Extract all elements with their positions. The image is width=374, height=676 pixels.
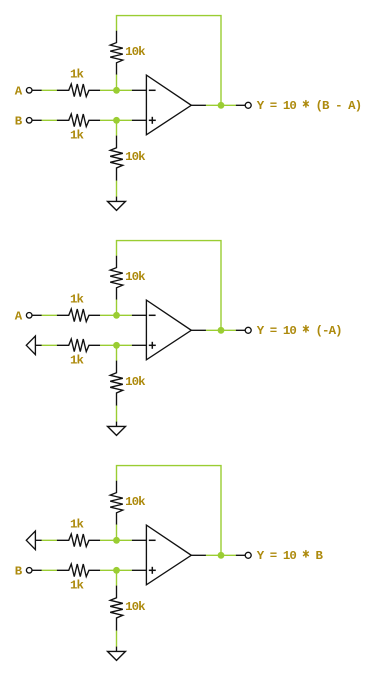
svg-text:B: B xyxy=(15,565,23,579)
svg-text:Y = 10 (-A): Y = 10 (-A) xyxy=(257,324,342,338)
svg-text:Y = 10 B: Y = 10 B xyxy=(257,549,324,563)
svg-text:A: A xyxy=(15,85,23,99)
svg-text:A: A xyxy=(15,310,23,324)
svg-text:B: B xyxy=(15,115,23,129)
svg-text:Y = 10 (B - A): Y = 10 (B - A) xyxy=(257,99,362,113)
